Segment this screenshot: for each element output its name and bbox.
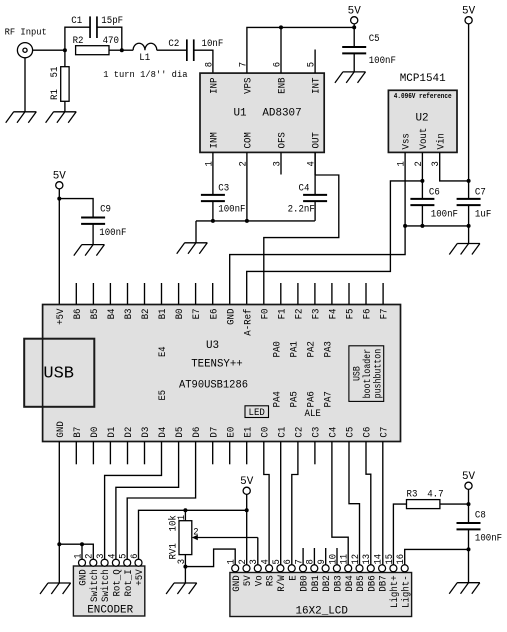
encoder connector body (73, 566, 144, 616)
svg-text:4: 4 (307, 161, 318, 166)
svg-text:2.2nF: 2.2nF (288, 203, 315, 215)
capacitor C4 2.2nF (314, 152, 316, 195)
svg-text:C8: C8 (475, 510, 486, 522)
svg-text:10nF: 10nF (202, 38, 224, 50)
svg-text:5V: 5V (348, 6, 361, 18)
resistor R1 51 (64, 50, 66, 66)
LCD pin circle 14 (379, 565, 386, 572)
node GND branch junction (57, 542, 61, 546)
LCD pin circle 1 (232, 565, 239, 572)
LCD pin circle 13 (367, 565, 374, 572)
svg-text:B3: B3 (123, 309, 135, 320)
ground C5 (343, 71, 366, 73)
svg-text:Vout: Vout (418, 128, 430, 150)
wire 5V circle to LCD pin2 (246, 494, 248, 564)
wire Light- to C8 node (405, 549, 469, 564)
encoder pin circle 2 (90, 559, 97, 566)
svg-text:16: 16 (396, 554, 407, 565)
U3 bottom pin stub E0 (229, 442, 231, 465)
node 5V rail C5 junction (352, 25, 356, 29)
svg-text:PA7: PA7 (323, 391, 335, 407)
LED box (245, 406, 269, 418)
svg-text:GND: GND (225, 309, 237, 325)
USB bootloader pushbutton box (349, 346, 384, 402)
svg-text:C6: C6 (362, 427, 374, 438)
svg-text:E7: E7 (191, 309, 203, 320)
wire D5 to encoder pin4 (116, 442, 179, 560)
wire R3 to 5V node (440, 503, 469, 505)
wire 5V down to Vin node (468, 24, 470, 181)
svg-text:C7: C7 (475, 186, 486, 198)
svg-text:5: 5 (307, 62, 318, 67)
svg-text:6: 6 (283, 559, 294, 564)
svg-text:RS: RS (265, 575, 277, 586)
svg-text:C1: C1 (276, 427, 288, 438)
svg-text:AD8307: AD8307 (262, 108, 301, 120)
svg-text:E1: E1 (242, 427, 254, 438)
wire Vout down (421, 152, 423, 181)
potentiometer RV1 10k (184, 510, 186, 520)
svg-text:4.7: 4.7 (427, 488, 443, 500)
svg-text:B7: B7 (72, 427, 84, 438)
svg-text:C5: C5 (369, 33, 380, 45)
USB connector box (24, 339, 94, 407)
svg-text:PA6: PA6 (306, 391, 318, 407)
LCD pin circle 9 (322, 565, 329, 572)
svg-text:7: 7 (238, 62, 249, 67)
resistor R2 470 (76, 46, 109, 55)
wire VPS to 5V rail (247, 27, 354, 73)
node ENB rail junction (279, 25, 283, 29)
ground U2 (457, 243, 480, 245)
wire connector to node (33, 49, 65, 51)
U3 top pin stub B5 (92, 283, 94, 305)
svg-text:ENCODER: ENCODER (87, 605, 133, 617)
ground R1 (54, 111, 77, 113)
svg-text:B1: B1 (157, 309, 169, 320)
svg-text:PA4: PA4 (271, 391, 283, 407)
svg-text:51: 51 (49, 67, 61, 78)
svg-text:ENB: ENB (277, 78, 289, 94)
svg-text:D6: D6 (191, 427, 203, 438)
wire ENB to 5V rail (280, 27, 282, 73)
svg-text:PA1: PA1 (289, 341, 301, 357)
svg-text:1uF: 1uF (475, 208, 491, 220)
encoder pin circle 6 (135, 559, 142, 566)
svg-text:2: 2 (238, 161, 249, 166)
LCD DB3 stub (336, 548, 338, 565)
svg-text:RF Input: RF Input (5, 27, 47, 38)
encoder pin circle 5 (124, 559, 131, 566)
svg-text:GND: GND (78, 569, 90, 585)
svg-text:U3: U3 (206, 340, 219, 352)
wire connector to ground (24, 58, 26, 112)
svg-text:AT90USB1286: AT90USB1286 (179, 379, 248, 391)
capacitor C6 100nF (421, 181, 423, 199)
wire bus to ground (468, 226, 470, 244)
U3 top pin stub E7 (195, 283, 197, 305)
svg-text:4.096V reference: 4.096V reference (394, 93, 452, 101)
U3 top pin stub B3 (127, 283, 129, 305)
svg-text:5V: 5V (462, 471, 475, 483)
LCD DB1 stub (313, 548, 315, 565)
wire Vin to 5V (440, 152, 469, 181)
svg-text:Switch: Switch (100, 569, 112, 602)
wire C2 to U1 INP pin 8 (194, 50, 213, 73)
svg-text:2: 2 (193, 527, 198, 538)
svg-text:2: 2 (85, 554, 96, 559)
svg-text:COM: COM (243, 132, 255, 148)
svg-text:C7: C7 (379, 427, 391, 438)
svg-text:C3: C3 (218, 183, 229, 195)
wire COM to bus (246, 152, 248, 221)
svg-text:5: 5 (272, 559, 283, 564)
wire U2 bus to U3 GND (230, 226, 405, 305)
svg-text:470: 470 (103, 35, 119, 47)
svg-text:A-Ref: A-Ref (242, 309, 254, 336)
U3 bottom pin stub D7 (212, 442, 214, 465)
capacitor C8 100nF (457, 522, 481, 524)
ground connector (14, 111, 37, 113)
svg-text:7: 7 (294, 559, 305, 564)
svg-text:3: 3 (177, 559, 188, 564)
svg-text:B4: B4 (106, 309, 118, 320)
resistor R3 4.7 (393, 504, 406, 565)
svg-text:16X2_LCD: 16X2_LCD (296, 606, 349, 618)
wire C2 to LCD E (292, 442, 298, 565)
svg-text:E5: E5 (158, 390, 169, 401)
LCD pin circle 12 (356, 565, 363, 572)
wire C1 to LCD R/W (280, 442, 282, 565)
node Vss bus junction (403, 224, 407, 228)
ground U1 bus (185, 242, 208, 244)
svg-text:R2: R2 (73, 35, 84, 47)
encoder pin circle 4 (112, 559, 119, 566)
svg-text:DB5: DB5 (355, 575, 367, 591)
svg-text:ALE: ALE (305, 408, 321, 420)
U3 top pin stub B1 (161, 283, 163, 305)
node 5V LCD junction (245, 508, 249, 512)
U3 top pin stub E6 (212, 283, 214, 305)
node Vin 5V junction (467, 179, 471, 183)
capacitor C9 100nF (59, 199, 93, 218)
svg-text:PA0: PA0 (271, 341, 283, 357)
svg-text:Rot_Q: Rot_Q (112, 569, 124, 596)
wire C6 to LCD DB6 (366, 442, 371, 565)
node Light- junction (467, 547, 471, 551)
svg-text:B6: B6 (72, 309, 84, 320)
svg-text:6: 6 (272, 62, 283, 67)
U3 bottom pin stub D2 (127, 442, 129, 465)
LCD pin circle 11 (345, 565, 352, 572)
U3 top pin stub F2 (297, 283, 299, 305)
svg-text:1: 1 (227, 559, 238, 564)
svg-text:DB4: DB4 (344, 575, 356, 591)
svg-text:6: 6 (130, 554, 141, 559)
svg-text:+5V: +5V (55, 308, 67, 325)
svg-text:DB7: DB7 (378, 575, 390, 591)
svg-text:D5: D5 (174, 427, 186, 438)
LCD pin circle 6 (288, 565, 295, 572)
svg-text:E0: E0 (225, 427, 237, 438)
wire Vout to A-Ref (247, 181, 423, 305)
capacitor C3 100nF (212, 152, 214, 195)
svg-text:100nF: 100nF (431, 208, 458, 220)
wire GND to encoder pins 1 2 (59, 544, 93, 559)
svg-text:2: 2 (414, 161, 425, 166)
node R3 5V junction (467, 502, 471, 506)
svg-text:DB6: DB6 (366, 575, 378, 591)
svg-text:13: 13 (362, 554, 373, 565)
svg-text:E: E (287, 575, 299, 581)
svg-text:15: 15 (385, 554, 396, 565)
svg-text:U1: U1 (233, 108, 246, 120)
LCD pin circle 2 (243, 565, 250, 572)
svg-text:E6: E6 (208, 309, 220, 320)
U3 top pin stub B0 (178, 283, 180, 305)
svg-text:F5: F5 (345, 309, 357, 320)
U3 top pin stub B4 (109, 283, 111, 305)
node C3 bus junction (211, 219, 215, 223)
capacitor C2 10nF (186, 39, 188, 61)
svg-text:Switch: Switch (89, 569, 101, 602)
svg-text:OFS: OFS (277, 132, 289, 148)
node encoder pin1 junction (80, 542, 84, 546)
svg-text:C3: C3 (311, 427, 323, 438)
LCD pin circle 8 (311, 565, 318, 572)
wire C4 to LCD DB4 (332, 442, 348, 565)
svg-text:D0: D0 (89, 427, 101, 438)
U3 top pin stub B6 (75, 283, 77, 305)
svg-text:Rot_I: Rot_I (123, 569, 135, 596)
wire R2 to node B (109, 49, 122, 51)
wire L1 to C2 (157, 49, 187, 51)
node RV1 bottom junction (183, 565, 187, 569)
svg-text:5V: 5V (240, 476, 253, 488)
svg-text:1: 1 (204, 161, 215, 166)
ground C9 (82, 244, 105, 246)
wire RV1 to ground (184, 567, 186, 583)
svg-text:INT: INT (311, 78, 323, 94)
wire U3 GND down to encoder (58, 442, 60, 584)
U3 top pin stub F7 (382, 283, 384, 305)
svg-text:OUT: OUT (311, 132, 323, 148)
U3 top pin stub B2 (144, 283, 146, 305)
svg-text:C6: C6 (429, 186, 440, 198)
svg-text:3: 3 (272, 161, 283, 166)
svg-text:D3: D3 (140, 427, 152, 438)
svg-text:pushbutton: pushbutton (373, 349, 385, 399)
svg-text:C4: C4 (328, 427, 340, 438)
U3 top pin stub F1 (280, 283, 282, 305)
wire RV1 bottom to LCD GND (185, 549, 235, 567)
svg-text:R3: R3 (407, 488, 418, 500)
wire OUT to F0 (314, 152, 316, 175)
svg-text:C1: C1 (71, 15, 82, 27)
ground RV1 (174, 582, 197, 584)
wire C7 to LCD DB7 (382, 442, 384, 565)
U3 bottom pin stub D1 (109, 442, 111, 465)
svg-text:8: 8 (204, 62, 215, 67)
svg-text:3: 3 (249, 559, 260, 564)
svg-text:PA3: PA3 (323, 341, 335, 357)
svg-text:8: 8 (306, 559, 317, 564)
svg-text:3: 3 (96, 554, 107, 559)
node C6 bus junction (420, 224, 424, 228)
svg-text:B0: B0 (174, 309, 186, 320)
capacitor C5 100nF (353, 27, 355, 47)
node COM bus junction (245, 219, 249, 223)
wire OFS stub (280, 152, 282, 174)
svg-text:5V: 5V (242, 575, 254, 586)
wire U1 ground bus (196, 220, 315, 222)
svg-text:1 turn 1/8'' dia: 1 turn 1/8'' dia (103, 69, 188, 80)
wire C0 to LCD RS (264, 442, 269, 565)
svg-text:100nF: 100nF (99, 227, 126, 239)
svg-text:F6: F6 (362, 309, 374, 320)
svg-text:F4: F4 (328, 309, 340, 320)
svg-text:C4: C4 (299, 183, 310, 195)
U3 top pin stub F5 (348, 283, 350, 305)
svg-text:D1: D1 (106, 427, 118, 438)
ground encoder GND (48, 582, 71, 584)
svg-text:F3: F3 (311, 309, 323, 320)
svg-text:MCP1541: MCP1541 (400, 73, 446, 85)
svg-text:B5: B5 (89, 309, 101, 320)
U3 bottom pin stub B7 (75, 442, 77, 465)
wire D6 to encoder pin5 (127, 442, 195, 560)
capacitor C7 1uF (468, 181, 470, 199)
svg-text:10: 10 (328, 554, 339, 565)
RV1 wiper arrow pin 2 (197, 537, 258, 539)
svg-text:C0: C0 (259, 427, 271, 438)
LCD pin circle 10 (333, 565, 340, 572)
svg-text:L1: L1 (139, 52, 150, 64)
svg-text:DB3: DB3 (333, 575, 345, 591)
wire U2 ground bus (405, 225, 469, 227)
svg-text:D7: D7 (208, 427, 220, 438)
svg-text:5V: 5V (462, 6, 475, 18)
svg-text:D2: D2 (123, 427, 135, 438)
wire bus to ground (195, 221, 197, 243)
svg-text:VPS: VPS (243, 78, 255, 94)
svg-text:C9: C9 (100, 204, 111, 216)
node Vout junction (420, 179, 424, 183)
svg-text:GND: GND (231, 575, 243, 591)
LCD pin circle 15 (390, 565, 397, 572)
svg-text:1: 1 (397, 161, 408, 166)
LCD pin circle 3 (254, 565, 261, 572)
U3 top pin stub F3 (314, 283, 316, 305)
inductor L1 (122, 49, 133, 51)
LCD DB2 stub (325, 548, 327, 565)
node C7 bus junction (467, 224, 471, 228)
wire wiper to LCD Vo (257, 538, 259, 565)
svg-text:Light+: Light+ (389, 575, 401, 608)
wire Vss to ground bus (404, 152, 406, 226)
node C9 tap junction (57, 197, 61, 201)
svg-text:14: 14 (374, 554, 385, 565)
svg-text:15pF: 15pF (101, 15, 123, 27)
svg-text:4: 4 (261, 559, 272, 564)
svg-text:R/W: R/W (276, 575, 288, 592)
regulator U2 MCP1541 body (388, 90, 457, 152)
LCD pin circle 16 (401, 565, 408, 572)
svg-text:F0: F0 (259, 309, 271, 320)
wire to encoder pin1 (81, 544, 83, 559)
op-amp U1 AD8307 body (200, 73, 324, 152)
LCD DB0 stub (302, 548, 304, 565)
svg-text:PA5: PA5 (289, 391, 301, 407)
svg-text:Vin: Vin (435, 133, 447, 149)
svg-text:+5V: +5V (134, 569, 146, 586)
svg-text:1: 1 (73, 554, 84, 559)
svg-text:DB2: DB2 (321, 575, 333, 591)
U3 bottom pin stub C3 (314, 442, 316, 465)
svg-text:DB0: DB0 (299, 575, 311, 591)
wire 5V to U3 +5V pin (58, 189, 60, 305)
U3 bottom pin stub E1 (246, 442, 248, 465)
svg-text:C2: C2 (294, 427, 306, 438)
wire D4 to encoder pin3 (105, 442, 162, 560)
ground C8 (457, 582, 480, 584)
svg-text:DB1: DB1 (310, 575, 322, 591)
svg-text:9: 9 (317, 559, 328, 564)
node RF input junction (63, 48, 67, 52)
node B junction (120, 48, 124, 52)
LCD pin circle 7 (300, 565, 307, 572)
svg-text:TEENSY++: TEENSY++ (191, 358, 243, 370)
svg-text:12: 12 (351, 554, 362, 565)
svg-text:Vss: Vss (401, 133, 413, 149)
capacitor C1 15pF (65, 27, 90, 50)
svg-text:PA2: PA2 (306, 341, 318, 357)
connector J1 RF Input (17, 43, 32, 58)
svg-text:4: 4 (107, 554, 118, 559)
svg-text:Vo: Vo (253, 575, 265, 586)
svg-text:Light-: Light- (400, 575, 412, 608)
svg-text:100nF: 100nF (369, 55, 396, 67)
svg-text:5V: 5V (53, 171, 66, 183)
U3 bottom pin stub D0 (92, 442, 94, 465)
U3 bottom pin stub D3 (144, 442, 146, 465)
node RV1 top junction (183, 508, 187, 512)
svg-text:INM: INM (209, 132, 221, 148)
svg-text:B2: B2 (140, 309, 152, 320)
LCD pin circle 4 (266, 565, 273, 572)
svg-text:C2: C2 (168, 38, 179, 50)
svg-text:2: 2 (238, 559, 249, 564)
svg-text:5: 5 (119, 554, 130, 559)
svg-text:1: 1 (177, 515, 188, 520)
LCD connector body 16X2_LCD (230, 573, 412, 617)
svg-text:11: 11 (340, 554, 351, 565)
svg-text:GND: GND (55, 421, 67, 437)
svg-text:100nF: 100nF (475, 533, 502, 545)
svg-text:E4: E4 (158, 346, 169, 357)
svg-text:RV1: RV1 (168, 543, 180, 559)
svg-text:INP: INP (209, 78, 221, 94)
svg-text:3: 3 (431, 161, 442, 166)
svg-text:USB: USB (43, 364, 74, 383)
wire INT stub (314, 50, 316, 74)
svg-text:F7: F7 (379, 309, 391, 320)
encoder pin circle 1 (79, 559, 86, 566)
wire encoder pin6 to 5V rail (139, 510, 247, 559)
microcontroller U3 TEENSY++ AT90USB1286 body (43, 305, 401, 442)
wire C5 to LCD DB5 (349, 442, 360, 565)
encoder pin circle 3 (101, 559, 108, 566)
